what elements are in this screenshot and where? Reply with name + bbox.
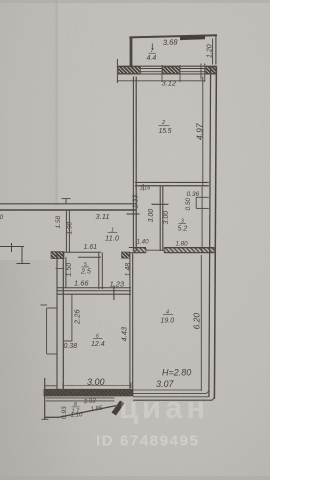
svg-text:ID 67489495: ID 67489495 xyxy=(96,433,200,450)
svg-text:циан: циан xyxy=(119,390,209,425)
